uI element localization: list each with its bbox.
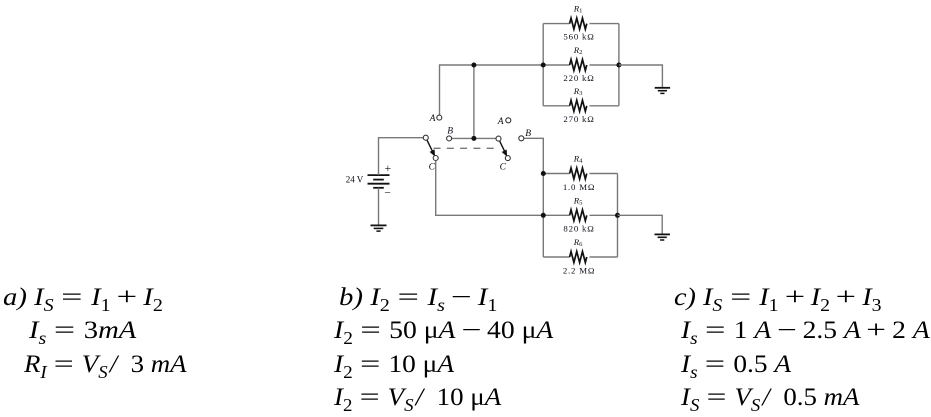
svg-text:R4: R4 [573, 154, 583, 165]
resistor R2 [543, 60, 619, 71]
svg-text:B: B [447, 127, 453, 137]
battery label 24 V [346, 174, 364, 184]
switch SW2 contact B [519, 136, 524, 141]
battery minus sign [384, 188, 391, 200]
svg-text:A: A [497, 117, 504, 127]
switch SW2 contact C [505, 156, 510, 161]
formula c line 4 [681, 384, 859, 412]
node bank1 right R2 [616, 63, 621, 68]
battery plus sign [385, 163, 392, 175]
label A (SW1) [429, 114, 436, 124]
value 560 kOhm [563, 32, 594, 42]
svg-text:R6: R6 [573, 237, 583, 248]
switch SW1 contact B [447, 136, 452, 141]
label C (SW1) [429, 163, 436, 173]
formula a line 2 [29, 317, 136, 345]
label R4 [573, 154, 583, 165]
label C (SW2) [500, 163, 507, 173]
gang dashed line [434, 147, 498, 149]
wire bank1 to ground [619, 65, 663, 87]
svg-text:−: − [384, 188, 391, 200]
ground (bank1) [655, 88, 670, 94]
node junction top wire [471, 63, 476, 68]
wire battery bottom to ground [378, 188, 380, 225]
formula b line 1 [339, 284, 497, 312]
bank2 right rail [617, 174, 619, 258]
battery 24 V [368, 175, 390, 188]
svg-text:A: A [429, 114, 436, 124]
bank1 left rail [542, 24, 544, 106]
formula b line 4 [334, 384, 501, 412]
switch SW2 pole circle [496, 136, 501, 141]
formula c line 1 [674, 284, 882, 312]
label R1 [573, 3, 583, 14]
node bank2 left R4 [541, 171, 546, 176]
node bank2 left R5 [541, 213, 546, 218]
svg-text:R1: R1 [573, 3, 583, 14]
svg-text:1.0 MΩ: 1.0 MΩ [563, 182, 595, 192]
ground (battery) [371, 225, 387, 231]
switch SW1 blade [427, 140, 435, 157]
node bank2 right R5 [615, 213, 620, 218]
resistor R3 [543, 100, 619, 111]
svg-text:24 V: 24 V [346, 174, 364, 184]
wire SW2 contact B to bank2 left rail [524, 138, 543, 173]
svg-text:820 kΩ: 820 kΩ [563, 224, 594, 234]
switch SW1 pole circle [423, 135, 428, 140]
value 270 kOhm [563, 114, 594, 124]
formula b line 2 [334, 317, 553, 345]
resistor R4 [543, 168, 617, 179]
resistor R5 [543, 210, 617, 221]
wire vertical junction to B line [473, 65, 475, 138]
svg-text:560 kΩ: 560 kΩ [563, 32, 594, 42]
value 1.0 MOhm [563, 182, 595, 192]
svg-text:R2: R2 [573, 45, 583, 56]
wire switch1 contact A up and top horizontal to bank1 [440, 65, 544, 115]
wire SW1 contact C down to bank2 row R5 [436, 161, 544, 216]
switch SW2 contact A [506, 118, 511, 123]
value 220 kOhm [563, 73, 594, 83]
ground (bank2) [655, 234, 670, 240]
wire B line between switches [452, 137, 496, 139]
node junction B line [471, 136, 476, 141]
label A (SW2) [497, 117, 504, 127]
svg-text:+: + [385, 163, 392, 175]
label R3 [573, 86, 583, 97]
svg-text:C: C [429, 163, 436, 173]
svg-text:R5: R5 [573, 196, 583, 207]
formula c line 2 [681, 317, 930, 345]
switch SW1 contact A [437, 115, 442, 120]
value 820 kOhm [563, 224, 594, 234]
svg-text:R3: R3 [573, 86, 583, 97]
value 2.2 MOhm [563, 265, 595, 275]
resistor R6 [543, 252, 617, 263]
label R5 [573, 196, 583, 207]
label R2 [573, 45, 583, 56]
svg-text:220 kΩ: 220 kΩ [563, 73, 594, 83]
resistor R1 [543, 18, 619, 29]
label R6 [573, 237, 583, 248]
formula b line 3 [334, 351, 454, 379]
wire bank2 to ground [618, 215, 663, 233]
svg-text:2.2 MΩ: 2.2 MΩ [563, 265, 595, 275]
label B (SW2) [525, 129, 531, 139]
switch SW1 contact C [433, 156, 438, 161]
node bank1 left R2 [541, 63, 546, 68]
label B (SW1) [447, 127, 453, 137]
formula a line 3 [24, 351, 187, 379]
formula c line 3 [681, 351, 791, 379]
wire battery top to switch pole [379, 138, 424, 175]
svg-text:270 kΩ: 270 kΩ [563, 114, 594, 124]
bank1 right rail [618, 24, 620, 106]
switch SW2 blade [500, 141, 508, 157]
svg-text:C: C [500, 163, 507, 173]
formula a line 1 [3, 284, 163, 312]
bank2 left rail [542, 174, 544, 258]
